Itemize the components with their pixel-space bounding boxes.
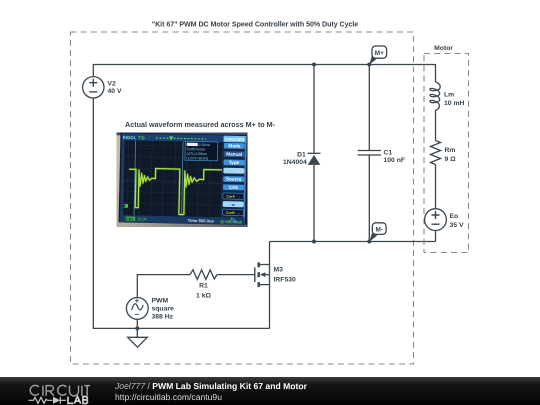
source PWM square 388 Hz — [126, 298, 148, 320]
voltage source V2 — [83, 77, 104, 98]
wire left branch V2 to bottom rail — [93, 98, 269, 328]
svg-text:40 V: 40 V — [108, 88, 122, 95]
junction dot D1 bottom — [312, 240, 316, 244]
svg-text:9 Ω: 9 Ω — [445, 156, 457, 163]
CircuitLab logo — [0, 377, 112, 405]
svg-text:Eo: Eo — [450, 213, 459, 220]
svg-text:Manual: Manual — [226, 152, 242, 157]
grid lines — [123, 140, 223, 217]
svg-text:Actual waveform measured acros: Actual waveform measured across M+ to M- — [125, 120, 276, 129]
node M+ flag — [367, 46, 386, 67]
svg-text:Source: Source — [226, 176, 242, 181]
svg-text:square: square — [152, 306, 175, 313]
wire C1 branch lower — [368, 155, 370, 242]
svg-text:CurB: CurB — [226, 211, 235, 215]
dotted cursor level line — [124, 182, 222, 184]
oscilloscope photo — [117, 133, 248, 228]
svg-text:CH1: CH1 — [126, 217, 133, 221]
wire D1 branch lower — [313, 165, 315, 242]
drain stub — [260, 264, 270, 266]
ground — [128, 328, 148, 347]
svg-text:CURSORS: CURSORS — [224, 137, 244, 142]
voltage source Eo — [425, 209, 447, 231]
svg-text:PWM: PWM — [152, 297, 169, 304]
drain/source vertical — [269, 242, 271, 329]
transistor M3 MOSFET — [255, 242, 270, 329]
wire gate to R1 — [217, 274, 255, 276]
channel marker — [123, 204, 128, 207]
resistor Rm — [431, 141, 441, 165]
svg-text:388 Hz: 388 Hz — [152, 314, 174, 321]
svg-text:Lm: Lm — [444, 91, 454, 98]
junction dot ground node — [135, 326, 139, 330]
motor dashed box — [424, 54, 469, 253]
wire PWM to bottom rail — [136, 319, 138, 328]
svg-text:M-: M- — [375, 226, 382, 233]
wire Rm to Eo — [435, 165, 437, 209]
body arrow — [264, 274, 270, 276]
inductor Lm — [430, 82, 440, 112]
wire R1 to PWM — [137, 275, 190, 298]
diode D1 — [308, 153, 321, 165]
svg-text:M3: M3 — [274, 267, 284, 274]
svg-text:10 mH: 10 mH — [444, 100, 464, 107]
svg-text:T'D: T'D — [138, 135, 145, 140]
svg-text:CH1: CH1 — [229, 185, 239, 190]
footer credit line — [115, 380, 307, 390]
info box — [185, 141, 218, 160]
wire D1 branch upper — [313, 65, 315, 154]
outer dashed enclosure box — [71, 32, 414, 364]
svg-text:--: -- — [238, 211, 240, 215]
source stub — [260, 284, 270, 286]
svg-text:Type: Type — [229, 160, 240, 165]
svg-text:M+: M+ — [375, 50, 384, 57]
junction dot M- — [367, 240, 371, 244]
screen interior — [123, 140, 223, 217]
svg-text:CurA: CurA — [226, 195, 235, 199]
capacitor C1 — [358, 151, 381, 156]
svg-text:100 nF: 100 nF — [384, 157, 406, 164]
svg-text:--: -- — [238, 195, 240, 199]
wire Eo to M- rail — [435, 231, 437, 242]
svg-text:1N4004: 1N4004 — [283, 159, 307, 166]
svg-text:10.0V: 10.0V — [137, 217, 147, 221]
svg-text:↻: ↻ — [230, 217, 235, 224]
svg-text:RIGOL: RIGOL — [123, 135, 137, 140]
svg-text:D1: D1 — [297, 151, 306, 158]
svg-text:(1/ΔT)=391Hz: (1/ΔT)=391Hz — [186, 156, 208, 160]
bottom status strip — [120, 215, 245, 224]
svg-text:1 kΩ: 1 kΩ — [196, 292, 211, 299]
svg-text:V2: V2 — [108, 81, 117, 88]
junction dot D1 top — [312, 63, 316, 67]
photo bezel background — [117, 133, 248, 227]
scope outer frame — [119, 133, 247, 225]
svg-text:35 V: 35 V — [450, 222, 464, 229]
wire top rail — [93, 65, 435, 83]
menu column — [221, 135, 245, 224]
svg-text:R1: R1 — [199, 283, 208, 290]
svg-text:IRF530: IRF530 — [274, 276, 297, 283]
waveform — [128, 168, 222, 215]
footer url — [115, 391, 222, 401]
top status strip — [122, 133, 246, 142]
node M- flag — [369, 223, 386, 242]
svg-text:Time 500.0us: Time 500.0us — [188, 218, 215, 224]
svg-text:Rm: Rm — [445, 147, 456, 154]
wire C1 branch upper — [368, 65, 370, 151]
footer bar — [0, 377, 540, 405]
svg-text:C1: C1 — [384, 149, 393, 156]
cursor lines — [134, 141, 136, 216]
channel segments — [258, 262, 260, 267]
gate bar — [254, 267, 256, 282]
svg-text:Motor: Motor — [434, 45, 453, 52]
svg-text:Mode: Mode — [228, 143, 241, 148]
wire bottom M- rail — [270, 241, 436, 243]
wire Lm to Rm — [435, 112, 437, 141]
svg-text:"Kit 67" PWM DC Motor Speed Co: "Kit 67" PWM DC Motor Speed Controller w… — [152, 20, 359, 28]
resistor R1 — [190, 270, 217, 280]
